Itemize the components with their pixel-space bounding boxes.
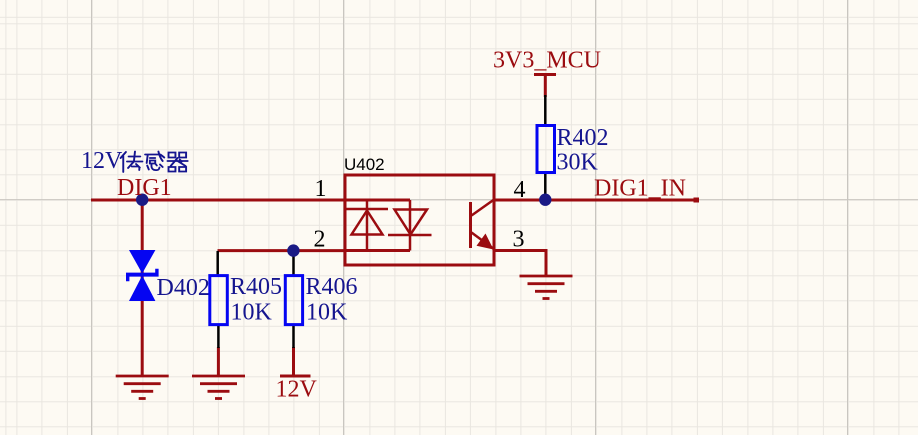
pin R405-2 (black) — [217, 325, 220, 348]
U402 input bottom rail (pin 2) — [345, 249, 410, 252]
svg-text:10K: 10K — [306, 300, 348, 326]
pin R406-2 (black) — [292, 325, 295, 348]
svg-text:D402: D402 — [157, 275, 210, 301]
svg-text:4: 4 — [514, 177, 526, 203]
op-to-coupler U402 box — [345, 175, 494, 265]
传 — [121, 152, 126, 172]
wire: 3V3_MCU power to R402 — [544, 75, 547, 98]
svg-text:12V: 12V — [276, 377, 318, 403]
器 — [167, 153, 187, 172]
svg-text:1: 1 — [315, 176, 327, 202]
LED B (down) of U402 — [388, 200, 432, 251]
svg-text:U402: U402 — [344, 155, 385, 174]
phototransistor of U402 — [471, 199, 496, 249]
pin R402-2 (black) — [544, 173, 547, 199]
U402 input top rail (pin 1) — [345, 199, 410, 202]
svg-text:DIG1_IN: DIG1_IN — [594, 176, 686, 202]
junction dot at DIG1/D402 — [136, 194, 148, 206]
wire DIG1 net: horizontal from left to U402 pin 1 — [91, 199, 344, 202]
wire: vertical from DIG1 junction down through D402 to ground — [141, 200, 144, 376]
ground at D402 — [116, 376, 169, 399]
svg-text:12V: 12V — [81, 148, 123, 174]
svg-text:R405: R405 — [230, 274, 282, 300]
TVS diode D402 — [126, 250, 159, 301]
power port 3V3_MCU bar — [534, 73, 556, 76]
svg-text:R402: R402 — [557, 125, 609, 151]
LED A (up) of U402 — [346, 200, 388, 251]
pin R406-1 (black) — [292, 251, 295, 276]
junction dot at R406/pin2 wire — [287, 244, 299, 256]
wire: U402 pin 3 to ground — [495, 251, 546, 278]
感 — [145, 152, 164, 171]
net label 12V传感器 — [81, 148, 188, 174]
ground at U402 pin 3 — [520, 276, 573, 299]
svg-text:3V3_MCU: 3V3_MCU — [493, 48, 601, 74]
pin R402-1 (black) — [544, 95, 547, 125]
wire end cap at DIG1_IN — [694, 198, 700, 203]
svg-text:30K: 30K — [557, 150, 599, 176]
wire: R406 bottom to 12V power — [292, 347, 295, 376]
power port 12V bar — [280, 375, 311, 378]
ground at R405 — [192, 376, 245, 399]
svg-text:R406: R406 — [306, 274, 358, 300]
svg-text:3: 3 — [513, 227, 525, 253]
svg-text:2: 2 — [314, 226, 326, 252]
emitter arrow of U402 — [477, 234, 494, 250]
resistor R406 — [285, 276, 302, 325]
resistor R405 — [210, 276, 228, 325]
wire: R405/R406 tops to U402 pin 2 — [218, 249, 346, 252]
junction dot at R402/DIG1_IN — [539, 194, 551, 206]
resistor R402 — [537, 126, 555, 173]
wire: R405 bottom to ground — [217, 347, 220, 376]
svg-text:10K: 10K — [231, 300, 273, 326]
wire DIG1_IN: U402 pin 4 to the right — [495, 199, 698, 202]
pin R405-1 (black) — [216, 251, 219, 276]
svg-text:DIG1: DIG1 — [117, 175, 172, 201]
